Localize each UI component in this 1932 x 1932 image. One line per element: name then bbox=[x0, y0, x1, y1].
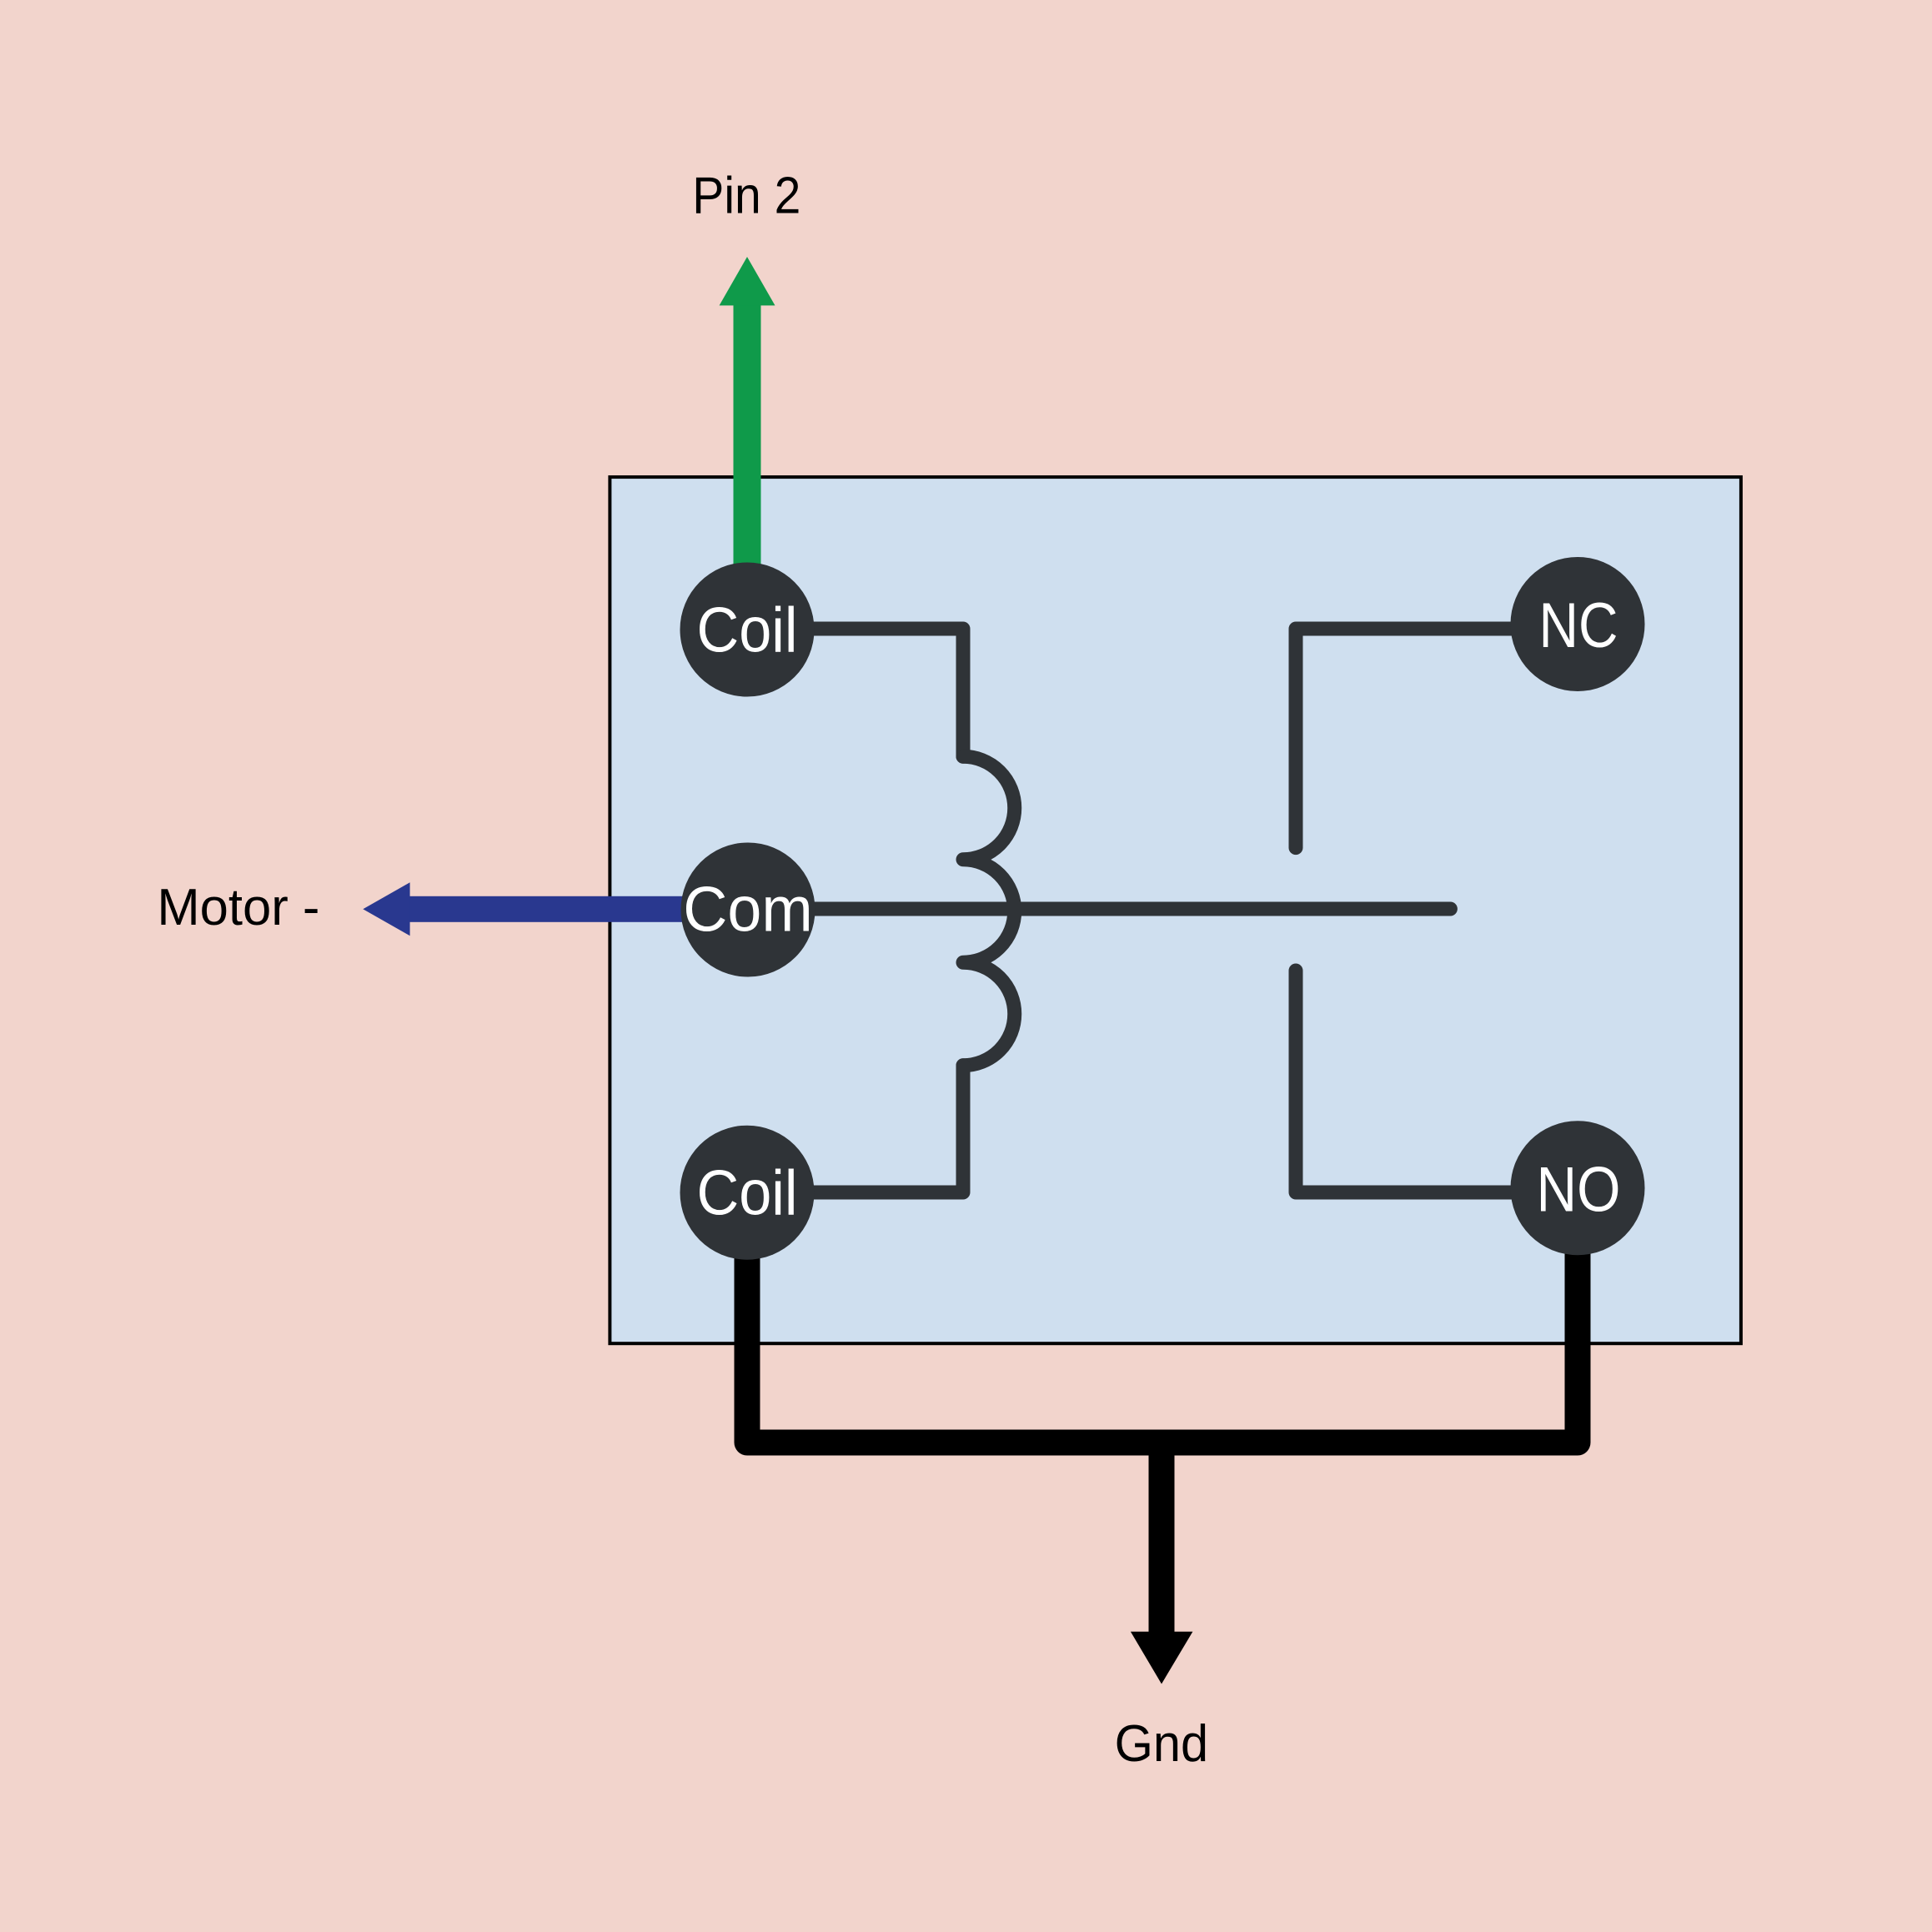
terminal NC bbox=[1511, 557, 1645, 691]
terminal Coil (top) bbox=[680, 563, 815, 697]
blue arrow to Motor - bbox=[363, 882, 692, 936]
wire: coil bottom lead bbox=[747, 1066, 963, 1192]
wire: NO contact bbox=[1296, 971, 1578, 1192]
svg-text:Coil: Coil bbox=[697, 595, 798, 666]
terminal Com bbox=[681, 843, 815, 977]
wire: coil top lead bbox=[747, 629, 963, 756]
terminal NO bbox=[1511, 1121, 1645, 1255]
svg-text:NO: NO bbox=[1537, 1155, 1621, 1226]
black arrow to Gnd bbox=[1149, 1443, 1175, 1632]
svg-text:NC: NC bbox=[1539, 590, 1618, 661]
svg-text:Coil: Coil bbox=[697, 1158, 798, 1229]
inductor coil L1 bbox=[963, 756, 1015, 1065]
svg-text:Gnd: Gnd bbox=[1115, 1715, 1209, 1773]
svg-text:Pin 2: Pin 2 bbox=[692, 168, 800, 225]
green arrow to Pin 2 bbox=[720, 257, 775, 567]
wire: common armature bbox=[748, 902, 1450, 916]
terminal Coil (bottom) bbox=[680, 1126, 815, 1260]
svg-text:Com: Com bbox=[683, 875, 813, 946]
thick ground bus wire bbox=[747, 1222, 1578, 1443]
wire: NC contact bbox=[1296, 629, 1578, 848]
relay body box bbox=[610, 477, 1740, 1343]
svg-text:Motor -: Motor - bbox=[157, 879, 319, 936]
